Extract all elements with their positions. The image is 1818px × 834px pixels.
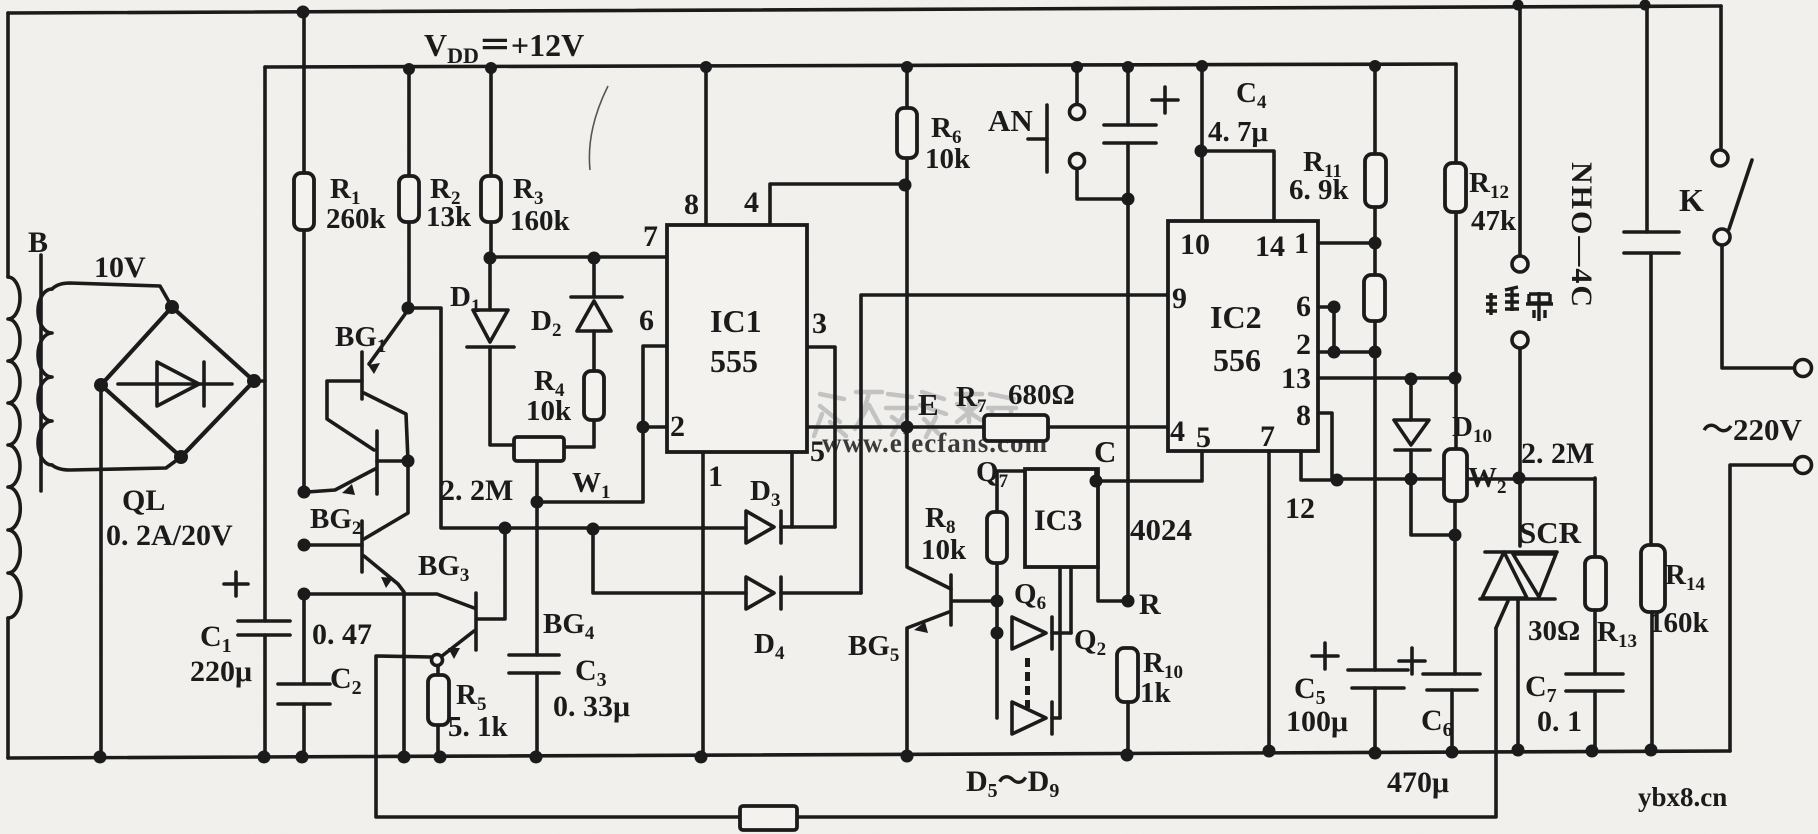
wire IC2 pin7 to ground (1267, 451, 1271, 751)
resistor R3 (481, 68, 501, 258)
transistor BG5 (907, 427, 997, 756)
node R5 ground (434, 751, 447, 764)
wire W2 to C6 (1452, 501, 1455, 752)
svg-text:6. 9k: 6. 9k (1289, 174, 1350, 206)
svg-text:10k: 10k (921, 534, 967, 566)
svg-text:14: 14 (1255, 230, 1285, 263)
transformer B secondary winding (38, 289, 52, 465)
capacitor C4 (1104, 67, 1178, 601)
svg-text:0. 2A/20V: 0. 2A/20V (106, 519, 233, 552)
node pin10/14 tee (1195, 145, 1208, 158)
potentiometer W1 (514, 437, 564, 461)
wire IC1 pin6 (537, 346, 667, 502)
node W2 bottom (1449, 529, 1462, 542)
terminal output lower (1512, 332, 1528, 348)
svg-text:IC2: IC2 (1210, 299, 1262, 335)
svg-text:2: 2 (1296, 328, 1311, 361)
resistor R4 (564, 371, 604, 447)
switch K (1712, 6, 1794, 368)
node R14 ground (1645, 744, 1658, 757)
svg-text:SCR: SCR (1519, 515, 1582, 550)
transformer B primary winding (8, 277, 21, 618)
svg-text:5: 5 (810, 435, 825, 468)
capacitor C7 (1566, 674, 1623, 691)
resistor R14 (1641, 545, 1665, 750)
node BG4 emitter circle (432, 655, 443, 666)
capacitor C5 (1312, 643, 1408, 688)
svg-text:4. 7μ: 4. 7μ (1208, 116, 1269, 148)
node R2 top (403, 63, 415, 75)
node BG2 emitter on R1 column (298, 486, 311, 499)
node C4 / AN (1122, 193, 1135, 206)
node SCR cathode ground (1512, 744, 1525, 757)
svg-text:4: 4 (744, 186, 759, 219)
svg-text:680Ω: 680Ω (1008, 379, 1075, 411)
svg-text:160k: 160k (510, 205, 571, 237)
node top rail / R1 column (297, 6, 310, 19)
node C1 ground (258, 751, 271, 764)
svg-text:10: 10 (1180, 228, 1210, 261)
resistor in gate loop (740, 806, 797, 830)
node BG3 emitter ground (398, 751, 411, 764)
resistor R2 (399, 69, 419, 308)
svg-text:9: 9 (1172, 282, 1187, 315)
node pin2/R9 (1369, 346, 1382, 359)
svg-text:2: 2 (670, 410, 685, 443)
svg-text:260k: 260k (326, 203, 387, 235)
svg-text:0. 47: 0. 47 (312, 618, 372, 651)
wire output column (1518, 5, 1522, 546)
svg-text:13: 13 (1281, 362, 1311, 395)
node SCR anode line / gate wire (1513, 472, 1526, 485)
node bus / D4 branch (587, 523, 600, 536)
wire IC3 to R node (1098, 567, 1128, 601)
scan scratch mark (589, 86, 608, 170)
node R11 Vdd (1369, 60, 1381, 72)
node R10 ground (1121, 749, 1134, 762)
svg-text:NHO—4C: NHO—4C (1565, 162, 1598, 309)
timer IC2 556 box (1168, 221, 1318, 451)
top 220V rail (8, 6, 1721, 13)
wire E node to IC2 pin4 (807, 425, 1168, 429)
wire IC1 pin4 (770, 184, 905, 225)
resistor R7 (984, 415, 1048, 441)
node BG5 emitter ground (901, 750, 914, 763)
node BG1 collector / BG2 base (364, 455, 415, 540)
wire D4 cathode to IC2 pin9 (861, 295, 1168, 593)
svg-text:47k: 47k (1471, 205, 1517, 237)
svg-text:～220V: ～220V (1702, 412, 1802, 447)
svg-text:0. 1: 0. 1 (1537, 705, 1582, 738)
svg-text:160k: 160k (1649, 607, 1710, 639)
svg-text:K: K (1679, 182, 1704, 218)
svg-text:220μ: 220μ (190, 655, 252, 688)
svg-text:B: B (28, 226, 48, 259)
svg-text:IC1: IC1 (710, 303, 762, 339)
resistor R12 (1445, 64, 1466, 449)
svg-text:R: R (1139, 588, 1161, 621)
node pin1 ground (695, 751, 708, 764)
terminal output upper (1512, 256, 1528, 272)
wire bridge right vertex to +V column (254, 379, 265, 383)
wire transformer primary bottom lead (6, 618, 10, 758)
svg-text:3: 3 (812, 307, 827, 340)
node D10 bottom (1405, 473, 1418, 486)
resistor R13 (1585, 557, 1606, 751)
node BG4 base on R1 column (298, 588, 311, 601)
potentiometer W2 (1444, 449, 1467, 501)
node E (901, 421, 914, 434)
capacitor NHO-4C column (1624, 5, 1679, 545)
wire pin6-pin2 tie (1332, 307, 1336, 352)
node pin4 / R6 (899, 179, 912, 192)
op-amp U1 IC1 555 box (667, 225, 807, 452)
node pin2/pin6 tie (637, 421, 650, 434)
capacitor C6 (1399, 648, 1480, 690)
svg-text:1k: 1k (1140, 677, 1172, 709)
svg-text:C: C (1094, 434, 1116, 469)
wire +V column (Vdd left end down through C1) (263, 67, 267, 757)
node pin7 ground (1263, 745, 1276, 758)
wire IC2 pin6 stub (1318, 305, 1334, 309)
wire gate network horizontal (1332, 477, 1595, 481)
node pin10 Vdd (1196, 60, 1208, 72)
svg-text:QL: QL (122, 484, 165, 517)
wire lower terminal to ground rail (1730, 465, 1794, 751)
bridge inner diode (118, 362, 232, 406)
node ground/bridge (94, 751, 107, 764)
node bridge bottom vertex (174, 450, 188, 464)
diode D9 (1012, 567, 1060, 734)
pushbutton AN (1028, 68, 1128, 199)
wire IC2 pin8 stub (1318, 413, 1332, 479)
wire IC3 C output to IC2 pin5 (1096, 448, 1202, 481)
svg-text:0. 33μ: 0. 33μ (553, 690, 630, 723)
wire IC2 pin13 (1318, 376, 1455, 380)
node C3 ground (530, 751, 543, 764)
node bridge top vertex (165, 300, 179, 314)
transistor BG1 (327, 310, 408, 461)
svg-text:ybx8.cn: ybx8.cn (1638, 782, 1727, 812)
capacitor C1 (224, 572, 290, 635)
node C junction (1090, 475, 1103, 488)
node R3 top (485, 62, 497, 74)
node R (1122, 595, 1135, 608)
svg-text:7: 7 (1260, 420, 1275, 453)
node C7 ground (1586, 745, 1599, 758)
node pin1/R11 (1369, 237, 1382, 250)
svg-text:6: 6 (1296, 290, 1311, 323)
node C2 ground (296, 751, 309, 764)
diode D2 (571, 258, 622, 371)
node pin7/D2 (588, 252, 601, 265)
wire transformer primary top lead (6, 13, 10, 277)
node pin7/R3/D1 (484, 252, 497, 265)
node top rail / output column (1513, 0, 1524, 11)
diode D10 (1394, 379, 1430, 479)
svg-text:1: 1 (708, 460, 723, 493)
node C5 ground (1369, 747, 1382, 760)
wire IC2 pin12 stub (1301, 451, 1337, 480)
ground rail (8, 751, 1730, 758)
node bridge right vertex (247, 374, 261, 388)
svg-text:100μ: 100μ (1286, 705, 1348, 738)
node pin8/pin12 (1331, 474, 1344, 487)
node bus / BG4 collector (499, 522, 512, 535)
svg-text:12: 12 (1285, 492, 1315, 525)
diode D3 (746, 511, 835, 543)
resistor R1 (294, 12, 314, 492)
label shuchu (output) (1486, 287, 1553, 321)
diode D1 (467, 258, 514, 445)
wire IC2 pins10/14 to Vdd (1201, 66, 1274, 221)
wire gate feedback bottom loop (376, 628, 1496, 817)
resistor R8 (987, 471, 1025, 718)
svg-text:1: 1 (1294, 227, 1309, 260)
transistor BG2 (307, 431, 408, 495)
svg-text:5. 1k: 5. 1k (448, 711, 509, 743)
watermark elecfans glyphs (814, 392, 1048, 458)
node pin13/R12 (1449, 372, 1462, 385)
counter IC3 box (1025, 469, 1098, 567)
capacitor C3 (509, 655, 559, 757)
svg-text:6: 6 (639, 304, 654, 337)
svg-text:2. 2M: 2. 2M (440, 474, 513, 507)
resistor R11 (1365, 66, 1386, 243)
svg-text:4024: 4024 (1130, 512, 1192, 547)
wire IC1 pin7 (490, 255, 667, 259)
svg-text:13k: 13k (426, 201, 472, 233)
resistor R6 (897, 67, 917, 427)
svg-text:E: E (918, 387, 939, 422)
wire IC1 pin2 (643, 425, 667, 429)
svg-text:10k: 10k (925, 143, 971, 175)
node R6 Vdd (901, 61, 913, 73)
terminal 220V upper (1795, 360, 1812, 377)
wire R9 bottom to C5 (1373, 352, 1377, 753)
wire D10 to W2 bottom (1411, 479, 1455, 535)
bridge rectifier QL outline (101, 307, 254, 457)
wire IC1 pin5 stub (790, 453, 794, 527)
svg-text:8: 8 (1296, 399, 1311, 432)
wire 2.2M bus from R2 node (408, 308, 746, 528)
svg-text:556: 556 (1213, 342, 1261, 378)
node R2 bottom junction (402, 302, 415, 315)
capacitor C2 (278, 594, 330, 757)
svg-text:555: 555 (710, 343, 758, 379)
wire bridge left vertex to ground (99, 385, 103, 758)
svg-text:4: 4 (1170, 415, 1185, 448)
node pin2 tie (1328, 346, 1341, 359)
wire IC1 pin3 to D3 cathode (807, 347, 835, 527)
svg-text:30Ω: 30Ω (1528, 615, 1580, 647)
wire secondary top lead (52, 283, 172, 307)
resistor R5 (428, 666, 449, 757)
svg-text:AN: AN (988, 103, 1033, 138)
node C4 Vdd (1122, 61, 1134, 73)
transformer core (39, 255, 43, 491)
wire IC1 pin1 to ground (701, 453, 705, 757)
wire W1 wiper to C3 (535, 461, 539, 655)
thyristor SCR triac (1480, 552, 1557, 750)
node BG3 base on R1 column (298, 539, 311, 552)
wire IC2 pin2 stub (1318, 350, 1375, 354)
wire IC2 pin1 stub (1318, 241, 1375, 245)
wire secondary bottom lead (52, 457, 181, 470)
Vdd rail (265, 64, 1456, 67)
transistor BG4 (304, 529, 505, 659)
svg-text:IC3: IC3 (1034, 504, 1082, 537)
resistor R9 unlabeled (1364, 243, 1385, 352)
svg-text:7: 7 (643, 220, 658, 253)
node pin13/D10 (1405, 373, 1418, 386)
dotted ellipsis diode chain (1025, 658, 1030, 708)
resistor R10 (1117, 648, 1138, 755)
node AN Vdd (1071, 61, 1083, 73)
node R8 bottom / BG5 collector (991, 595, 1004, 608)
svg-text:2. 2M: 2. 2M (1521, 437, 1594, 470)
svg-text:5: 5 (1196, 421, 1211, 454)
node top rail / NHO cap column (1640, 0, 1651, 11)
node C6 ground (1446, 746, 1459, 759)
terminal 220V lower (1795, 457, 1812, 474)
node pin6 tie (1328, 301, 1341, 314)
svg-text:D5～D9: D5～D9 (966, 765, 1059, 802)
svg-text:8: 8 (684, 188, 699, 221)
wire IC1 pin8 to Vdd (704, 67, 708, 225)
svg-text:10V: 10V (94, 251, 146, 284)
diode D4 (746, 577, 861, 609)
wire D4 branch (593, 529, 746, 593)
node bridge left vertex (94, 378, 108, 392)
wire R13 drop (1593, 478, 1597, 557)
svg-text:470μ: 470μ (1387, 766, 1449, 799)
transistor BG3 (304, 521, 404, 757)
node wiper / pin6 wire (531, 496, 544, 509)
node D5 anode (991, 627, 1004, 640)
svg-text:10k: 10k (526, 395, 572, 427)
node pin8 Vdd (700, 61, 712, 73)
diode D5 (1012, 567, 1071, 649)
